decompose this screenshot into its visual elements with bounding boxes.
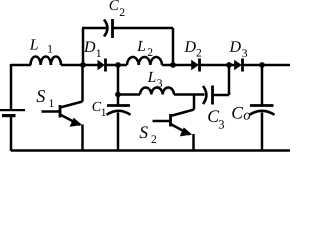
battery source long plate	[0, 109, 25, 111]
wire battery bottom lead	[10, 116, 13, 152]
transistor S2 gate lead	[153, 120, 171, 123]
capacitor Co straight plate	[250, 104, 274, 107]
label D2	[184, 41, 201, 56]
node junction dot at D2/D3/C3	[226, 62, 232, 68]
transistor S1 base bar	[59, 105, 62, 118]
diode D2 triangle	[191, 60, 199, 71]
inductor L3	[140, 88, 174, 95]
battery source short plate	[2, 114, 16, 117]
wire Co bottom lead	[261, 113, 264, 151]
diode D1 triangle	[98, 60, 105, 71]
wire C2 branch left riser	[82, 28, 85, 65]
wire S1 collector riser	[81, 65, 84, 102]
diode D3 bar	[241, 59, 244, 72]
transistor S1 emitter arrowhead	[70, 118, 83, 127]
wire bottom rail	[11, 149, 290, 152]
wire L3 to C3	[174, 93, 205, 96]
transistor S2 collector diagonal	[171, 110, 195, 117]
label C2	[110, 0, 125, 16]
node junction dot at D3/Co output	[259, 62, 265, 68]
label L1	[30, 39, 53, 52]
node junction dot at C2/L2/D2	[170, 62, 176, 68]
transistor S2 emitter diagonal	[171, 124, 191, 135]
transistor S2 emitter arrowhead	[180, 127, 193, 136]
label C3	[208, 110, 224, 128]
node junction dot at C1/L3	[115, 92, 121, 98]
inductor L2	[127, 57, 162, 65]
wire top rail D3 to right edge	[243, 64, 291, 67]
diode D2 bar	[198, 59, 201, 72]
wire Co top lead	[261, 65, 264, 105]
wire top rail left segment	[11, 64, 31, 67]
capacitor C3 curved plate	[203, 86, 206, 104]
capacitor C3 straight plate	[211, 86, 214, 105]
capacitor Co curved plate	[250, 111, 275, 115]
wire C3 right lead	[214, 94, 230, 97]
wire S1 emitter to bottom rail	[81, 125, 84, 151]
wire S2 emitter to bottom rail	[192, 134, 195, 151]
transistor S2 base bar	[169, 114, 172, 127]
label L2	[137, 41, 152, 56]
node junction dot at L1/D1/C2/S1	[80, 62, 86, 68]
label Co	[232, 107, 250, 120]
diode D1 bar	[104, 59, 107, 72]
wire C2 branch top right	[114, 27, 174, 30]
transistor S1 gate lead	[42, 110, 61, 113]
wire C1 bottom lead	[117, 113, 120, 151]
wire C2 branch right riser	[172, 28, 175, 65]
label C1	[93, 102, 106, 116]
wire C1 top lead	[117, 95, 120, 106]
wire C1 branch riser	[117, 65, 120, 95]
wire top rail D1 to L2	[106, 64, 128, 67]
label L3	[148, 72, 163, 87]
capacitor C2 curved plate	[104, 20, 107, 37]
transistor S1 emitter diagonal	[60, 115, 80, 126]
label D1	[84, 42, 101, 57]
capacitor C2 straight plate	[111, 19, 114, 38]
capacitor C1 straight plate	[107, 104, 130, 107]
wire S2 collector tap	[193, 95, 196, 110]
wire battery top lead	[10, 64, 13, 110]
node junction dot at D1/L2/C1	[115, 62, 121, 68]
transistor S1 collector diagonal	[60, 102, 83, 108]
wire top rail L1 to D1	[61, 64, 99, 67]
capacitor C1 curved plate	[107, 111, 131, 115]
label S1	[37, 90, 54, 107]
wire C2 branch top left	[82, 27, 106, 30]
inductor L1	[31, 56, 62, 65]
wire top rail L2 to D2	[162, 64, 192, 67]
label D3	[229, 41, 247, 57]
wire top rail D2 to D3	[200, 64, 235, 67]
wire C3 riser to top rail	[228, 65, 231, 95]
label S2	[140, 126, 157, 143]
diode D3 triangle	[234, 60, 242, 71]
wire L3 left lead	[117, 93, 140, 96]
